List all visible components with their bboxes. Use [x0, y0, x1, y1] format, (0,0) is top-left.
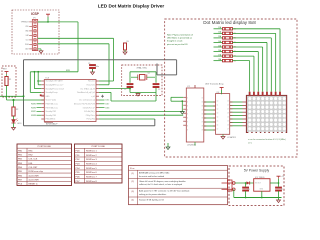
svg-text:O5: O5	[201, 113, 203, 115]
svg-text:Q4: Q4	[217, 117, 219, 119]
svg-text:ROW line 6: ROW line 6	[86, 172, 97, 174]
svg-text:C7: C7	[281, 189, 283, 191]
svg-text:O9: O9	[201, 129, 203, 131]
svg-text:O6: O6	[201, 117, 203, 119]
svg-text:Standby/MPU as osc?: Standby/MPU as osc?	[46, 84, 64, 87]
svg-text:x can be connected to draw 0.5: x can be connected to draw 0.5 V, 8 (MHz…	[248, 138, 286, 141]
svg-text:ICB (ELF) 5 uF: ICB (ELF) 5 uF	[83, 107, 96, 109]
svg-text:xtal 16 MH: xtal 16 MH	[29, 178, 39, 181]
svg-text:the matrix and further isolate: the matrix and further isolated	[139, 175, 164, 178]
svg-text:ROW6: ROW6	[31, 107, 36, 109]
svg-text:ROW line 7: ROW line 7	[86, 177, 97, 179]
svg-text:ROW8: ROW8	[31, 115, 36, 117]
svg-text:Vision? (volt): Vision? (volt)	[46, 99, 57, 102]
svg-text:100n: 100n	[95, 66, 99, 68]
svg-text:Sl no: Sl no	[130, 168, 134, 170]
svg-text:PD7y (Pb): PD7y (Pb)	[87, 119, 96, 121]
svg-text:Sweeper 8 GB by blky am 5G: Sweeper 8 GB by blky am 5G	[139, 198, 164, 201]
svg-text:ROW7: ROW7	[31, 111, 36, 113]
svg-text:SCLAb (Pb)+: SCLAb (Pb)+	[84, 110, 95, 113]
svg-text:LC MATRIX: LC MATRIX	[227, 136, 237, 139]
svg-text:Resume: Resume	[88, 81, 95, 83]
svg-text:Standby PB3: Standby PB3	[46, 114, 57, 117]
svg-text:IC4: IC4	[217, 92, 220, 94]
svg-text:(2): (2)	[132, 181, 135, 183]
svg-text:C6: C6	[248, 189, 250, 191]
svg-text:ATMEGA8-P: ATMEGA8-P	[46, 123, 58, 126]
svg-text:MOSI: MOSI	[66, 70, 70, 72]
svg-text:O8: O8	[201, 125, 203, 127]
svg-text:Take/Attach A_adj? pF: Take/Attach A_adj? pF	[77, 91, 96, 94]
svg-text:Adds power for 5 TBT connector: Adds power for 5 TBT connector; no 5V fu…	[139, 190, 190, 193]
svg-text:JP1: JP1	[33, 18, 36, 20]
svg-text:Q1: Q1	[148, 73, 150, 75]
svg-text:Q2: Q2	[217, 109, 219, 111]
svg-text:PD6y PbLn: PD6y PbLn	[86, 115, 95, 117]
svg-text:Osc XTAL1 adj_W: Osc XTAL1 adj_W	[80, 87, 95, 90]
svg-text:C3: C3	[158, 89, 160, 91]
svg-text:Standby PB2: Standby PB2	[46, 110, 57, 113]
svg-text:O3: O3	[201, 105, 203, 107]
svg-text:Q0: Q0	[217, 101, 219, 103]
svg-text:D4: D4	[227, 117, 229, 119]
svg-text:O4: O4	[201, 109, 203, 111]
svg-text:Q1: Q1	[217, 105, 219, 107]
svg-text:PORT D USE: PORT D USE	[92, 146, 106, 148]
svg-text:Standby/Precise install: Standby/Precise install	[46, 87, 65, 90]
svg-text:IN OUT: IN OUT	[255, 183, 261, 185]
svg-text:D3: D3	[227, 113, 229, 115]
svg-text:COL6: COL6	[105, 100, 109, 102]
svg-text:R1: R1	[9, 79, 11, 81]
svg-text:PB6/XTAL1 osc: PB6/XTAL1 osc	[46, 103, 59, 106]
svg-text:LED Matrix is presented as: LED Matrix is presented as	[167, 37, 192, 40]
svg-text:(3): (3)	[132, 191, 135, 193]
svg-text:ULN Transistor Array: ULN Transistor Array	[205, 83, 224, 86]
svg-text:5V Power Supply: 5V Power Supply	[244, 169, 270, 173]
svg-text:D2: D2	[227, 109, 229, 111]
svg-text:XTAL OSC: XTAL OSC	[137, 67, 148, 70]
svg-text:D7: D7	[227, 129, 229, 131]
svg-text:sufficient; the ICs finish att: sufficient; the ICs finish attach; ref w…	[139, 183, 182, 186]
svg-text:Resume/b: Resume/b	[87, 85, 95, 87]
svg-text:ROW line 4: ROW line 4	[86, 164, 97, 166]
svg-text:COL7: COL7	[105, 104, 109, 106]
svg-text:Q7: Q7	[217, 129, 219, 131]
svg-text:Obtain full circuit 3D diagram: Obtain full circuit 3D diagram; more und…	[139, 180, 186, 183]
svg-text:ROW line 8: ROW line 8	[86, 181, 97, 183]
svg-text:PB4 (MISO): PB4 (MISO)	[46, 119, 56, 121]
svg-text:Note: Physical orientation of: Note: Physical orientation of	[167, 34, 193, 37]
svg-text:COL8: COL8	[105, 107, 109, 109]
svg-text:Standby/LOST UART: Standby/LOST UART	[46, 80, 64, 83]
svg-text:LED Dot Matrix Display Driver: LED Dot Matrix Display Driver	[98, 4, 165, 9]
svg-text:(Resume PdLF A GILP) W: (Resume PdLF A GILP) W	[74, 103, 95, 106]
svg-text:ICSP: ICSP	[31, 12, 40, 16]
svg-text:O7: O7	[201, 121, 203, 123]
svg-text:Q5: Q5	[217, 121, 219, 123]
svg-text:CLK: CLK	[26, 40, 29, 42]
svg-text:thought in circuit;: thought in circuit;	[167, 40, 183, 43]
svg-text:ATMEGA8 running at 16 MHz XTAL: ATMEGA8 running at 16 MHz XTAL;	[139, 172, 170, 175]
svg-text:Dot Matrix led display 8x8: Dot Matrix led display 8x8	[203, 20, 256, 25]
svg-text:R2: R2	[16, 109, 18, 111]
svg-text:LED1: LED1	[17, 123, 22, 125]
svg-text:PB7/XTAL2 osc: PB7/XTAL2 osc	[46, 106, 59, 109]
svg-text:D1: D1	[227, 105, 229, 107]
svg-text:ROW line 2: ROW line 2	[86, 155, 97, 157]
svg-text:Standby/Precip: Standby/Precip	[46, 91, 58, 94]
svg-text:O1: O1	[201, 97, 203, 99]
svg-text:ROW line 5: ROW line 5	[86, 168, 97, 170]
svg-text:O2: O2	[201, 101, 203, 103]
svg-text:VPP/MCLR: VPP/MCLR	[21, 22, 30, 24]
svg-text:IC1 78S05: IC1 78S05	[255, 177, 265, 179]
svg-text:pins not as per the DS: pins not as per the DS	[167, 43, 188, 46]
svg-text:ROW line 1: ROW line 1	[86, 151, 97, 153]
svg-text:C2: C2	[124, 89, 126, 91]
svg-text:(1): (1)	[132, 173, 135, 175]
svg-text:ref x: ref x	[248, 142, 252, 144]
svg-text:(4): (4)	[132, 200, 135, 202]
svg-text:D5: D5	[227, 121, 229, 123]
svg-text:RESET in: RESET in	[29, 184, 39, 186]
svg-text:xtal 16 MH: xtal 16 MH	[29, 174, 39, 177]
svg-text:IC2: IC2	[187, 86, 190, 88]
svg-text:nothing pin for powers identif: nothing pin for powers identifiers	[139, 193, 166, 196]
svg-text:GND: GND	[46, 96, 51, 98]
svg-text:ROW5: ROW5	[31, 104, 36, 106]
svg-text:Q6: Q6	[217, 125, 219, 127]
svg-text:Q3: Q3	[217, 113, 219, 115]
svg-text:COL CLK: COL CLK	[29, 159, 38, 161]
svg-text:D6: D6	[227, 125, 229, 127]
svg-text:ROW line 3: ROW line 3	[86, 159, 97, 161]
svg-text:D0: D0	[227, 101, 229, 103]
svg-text:Osc seek/(osc2) adj: Osc seek/(osc2) adj	[79, 100, 95, 102]
